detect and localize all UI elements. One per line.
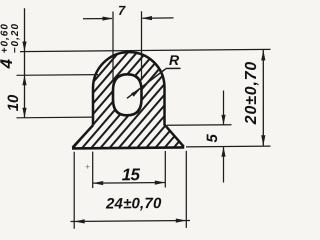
dimension 5 (flange height, right): [167, 90, 232, 183]
left dimension line with arrows (dims 4 and 10): [22, 8, 26, 118]
dimension 24±0,70 (base width, bottom): [71, 151, 191, 229]
dim text 4 +0,60/-0,20 (rotated): [0, 23, 21, 70]
shared top extension line (dome top, for dims 4 and 20): [20, 49, 271, 51]
svg-text:24±0,70: 24±0,70: [105, 195, 162, 212]
stray scan mark: [86, 165, 90, 169]
svg-text:20±0,70: 20±0,70: [243, 61, 260, 125]
part outline (cross-section of lug): [72, 52, 184, 149]
svg-text:10: 10: [5, 94, 22, 111]
dimension 20±0,70 (right overall height): [261, 50, 265, 146]
leader line for R pointing at hole corner radius: [127, 69, 166, 98]
hatching of cross-section: [17, 43, 273, 160]
svg-text:15: 15: [122, 165, 141, 184]
dimension 7 (hole width, top): [83, 11, 174, 81]
base bottom extension line to the right: [186, 145, 271, 148]
dimension 15 (body width, below base): [93, 151, 166, 188]
svg-text:7: 7: [118, 3, 126, 18]
svg-text:4: 4: [0, 58, 16, 69]
left extension lines (hole top / hole bottom): [17, 75, 99, 118]
hole outline: [113, 74, 142, 115]
svg-text:R: R: [169, 52, 180, 68]
svg-text:+0,60: +0,60: [0, 23, 10, 53]
svg-text:−0,20: −0,20: [10, 23, 21, 53]
svg-text:5: 5: [204, 133, 221, 142]
